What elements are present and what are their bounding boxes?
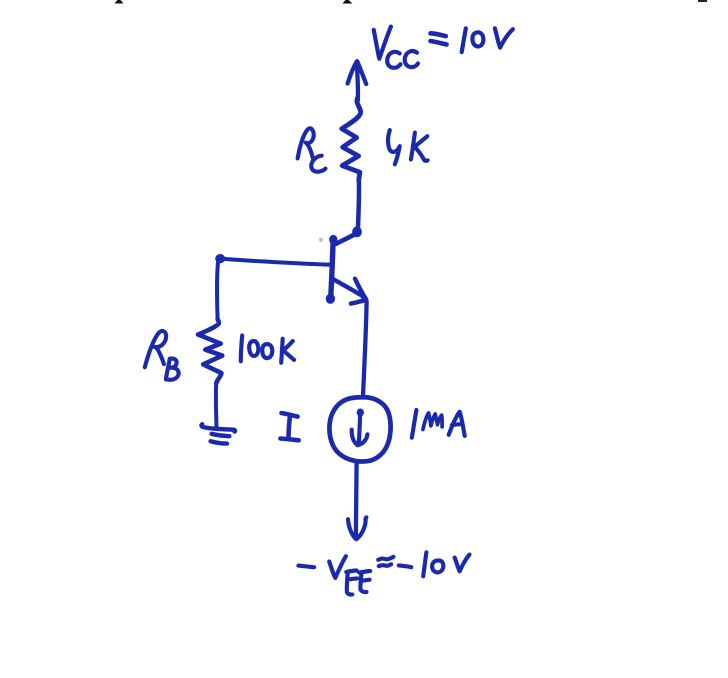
wire base [221,259,329,265]
label I [280,413,298,440]
resistor RB [198,319,222,383]
label -VEE = -10V [298,552,469,594]
ground [201,424,235,443]
wire Rc to collector [358,180,359,228]
label Rc [298,128,326,171]
stray dot near base [319,238,323,242]
junction collector node [352,226,362,237]
transistor Q1 [326,234,368,304]
page text fragment right [698,0,707,2]
value 4K [388,130,428,164]
page text fragment left [115,0,124,4]
page text fragment middle [343,0,353,4]
wire RB to ground [214,384,219,429]
wire emitter to current source [363,302,367,395]
wire base to RB [217,263,218,320]
power Vcc arrow [348,61,367,100]
power -VEE arrow [348,517,366,539]
wire current source to VEE arrow [354,463,359,537]
value 100K [241,335,294,362]
current source I1 [329,397,390,461]
junction base node [215,254,225,263]
resistor Rc [342,98,361,181]
label Vcc = 10V [374,27,513,68]
label RB [145,331,179,380]
value 1mA [412,410,465,438]
